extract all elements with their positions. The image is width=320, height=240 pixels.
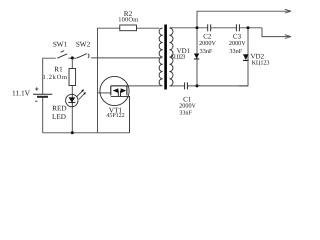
switch SW1: [57, 51, 67, 59]
wire R1 to LED: [71, 86, 73, 95]
output arrow lower: [285, 35, 291, 39]
wire LED bottom lead: [71, 107, 73, 133]
wire SW1-SW2 link: [68, 57, 76, 59]
wire C2-C3 link: [211, 27, 237, 29]
transformer T1 core: [164, 25, 167, 90]
wire R1 top lead: [71, 58, 73, 69]
svg-text:LED: LED: [52, 113, 66, 121]
transformer T1 secondary winding: [170, 28, 174, 86]
svg-text:1.2kOm: 1.2kOm: [42, 74, 67, 81]
svg-text:R1: R1: [54, 66, 63, 74]
svg-text:11.1V: 11.1V: [12, 88, 31, 97]
wire VD2 vertical: [239, 28, 248, 86]
svg-text:SW1: SW1: [53, 41, 68, 49]
svg-text:2000V: 2000V: [229, 40, 246, 47]
svg-text:SW2: SW2: [76, 41, 91, 49]
resistor R1: [69, 69, 76, 86]
svg-text:КЦ123: КЦ123: [252, 59, 270, 66]
junction dot top wire left: [196, 26, 199, 29]
svg-text:33nF: 33nF: [179, 109, 192, 116]
transistor VT1: [100, 76, 130, 132]
svg-text:2000V: 2000V: [199, 40, 216, 47]
LED VD (RED LED): [66, 89, 86, 106]
wire bottom rail: [43, 132, 130, 134]
junction dot top wire right: [247, 26, 250, 29]
diode VD2: [243, 54, 249, 60]
wire C3 to corner: [239, 27, 262, 29]
wire R2 left drop (R2 to gate and bottom rail): [98, 28, 120, 133]
wire lower output step: [262, 28, 291, 37]
svg-text:33nF: 33nF: [229, 48, 242, 55]
svg-text:33nF: 33nF: [200, 48, 213, 55]
transformer T1 primary winding: [159, 28, 163, 86]
capacitor C2: [208, 24, 211, 31]
svg-text:45P122: 45P122: [106, 113, 124, 119]
wire secondary bottom to C1: [170, 85, 185, 87]
wire left vertical bottom (battery to bottom rail): [42, 97, 44, 133]
wire left vertical top (battery to SW1 corner): [43, 58, 56, 94]
diode VD1: [194, 54, 199, 60]
capacitor C3: [236, 24, 239, 31]
switch SW2: [77, 54, 90, 59]
output arrow upper: [285, 9, 291, 13]
svg-text:КЦ123: КЦ123: [170, 53, 185, 60]
wire VT1 collector to transformer bottom: [127, 85, 161, 87]
wire upper output arrow: [197, 11, 291, 28]
junction dot SW node: [71, 56, 74, 59]
battery GB 11.1V: [33, 87, 52, 101]
resistor R2: [120, 25, 137, 31]
junction dot bottom rail LED: [71, 131, 74, 134]
junction dot bottom right rail: [196, 84, 199, 87]
wire R2 right to transformer: [137, 27, 160, 29]
wire SW2 to transformer tap: [91, 57, 161, 59]
wire VT1 gate branch: [98, 92, 111, 94]
svg-text:100Om: 100Om: [118, 16, 138, 23]
svg-text:RED: RED: [52, 104, 66, 112]
wire C1 to VD2 corner: [187, 85, 248, 87]
capacitor C1: [185, 82, 188, 89]
wire VD1 vertical: [196, 28, 198, 86]
wire secondary top to output: [170, 27, 208, 29]
